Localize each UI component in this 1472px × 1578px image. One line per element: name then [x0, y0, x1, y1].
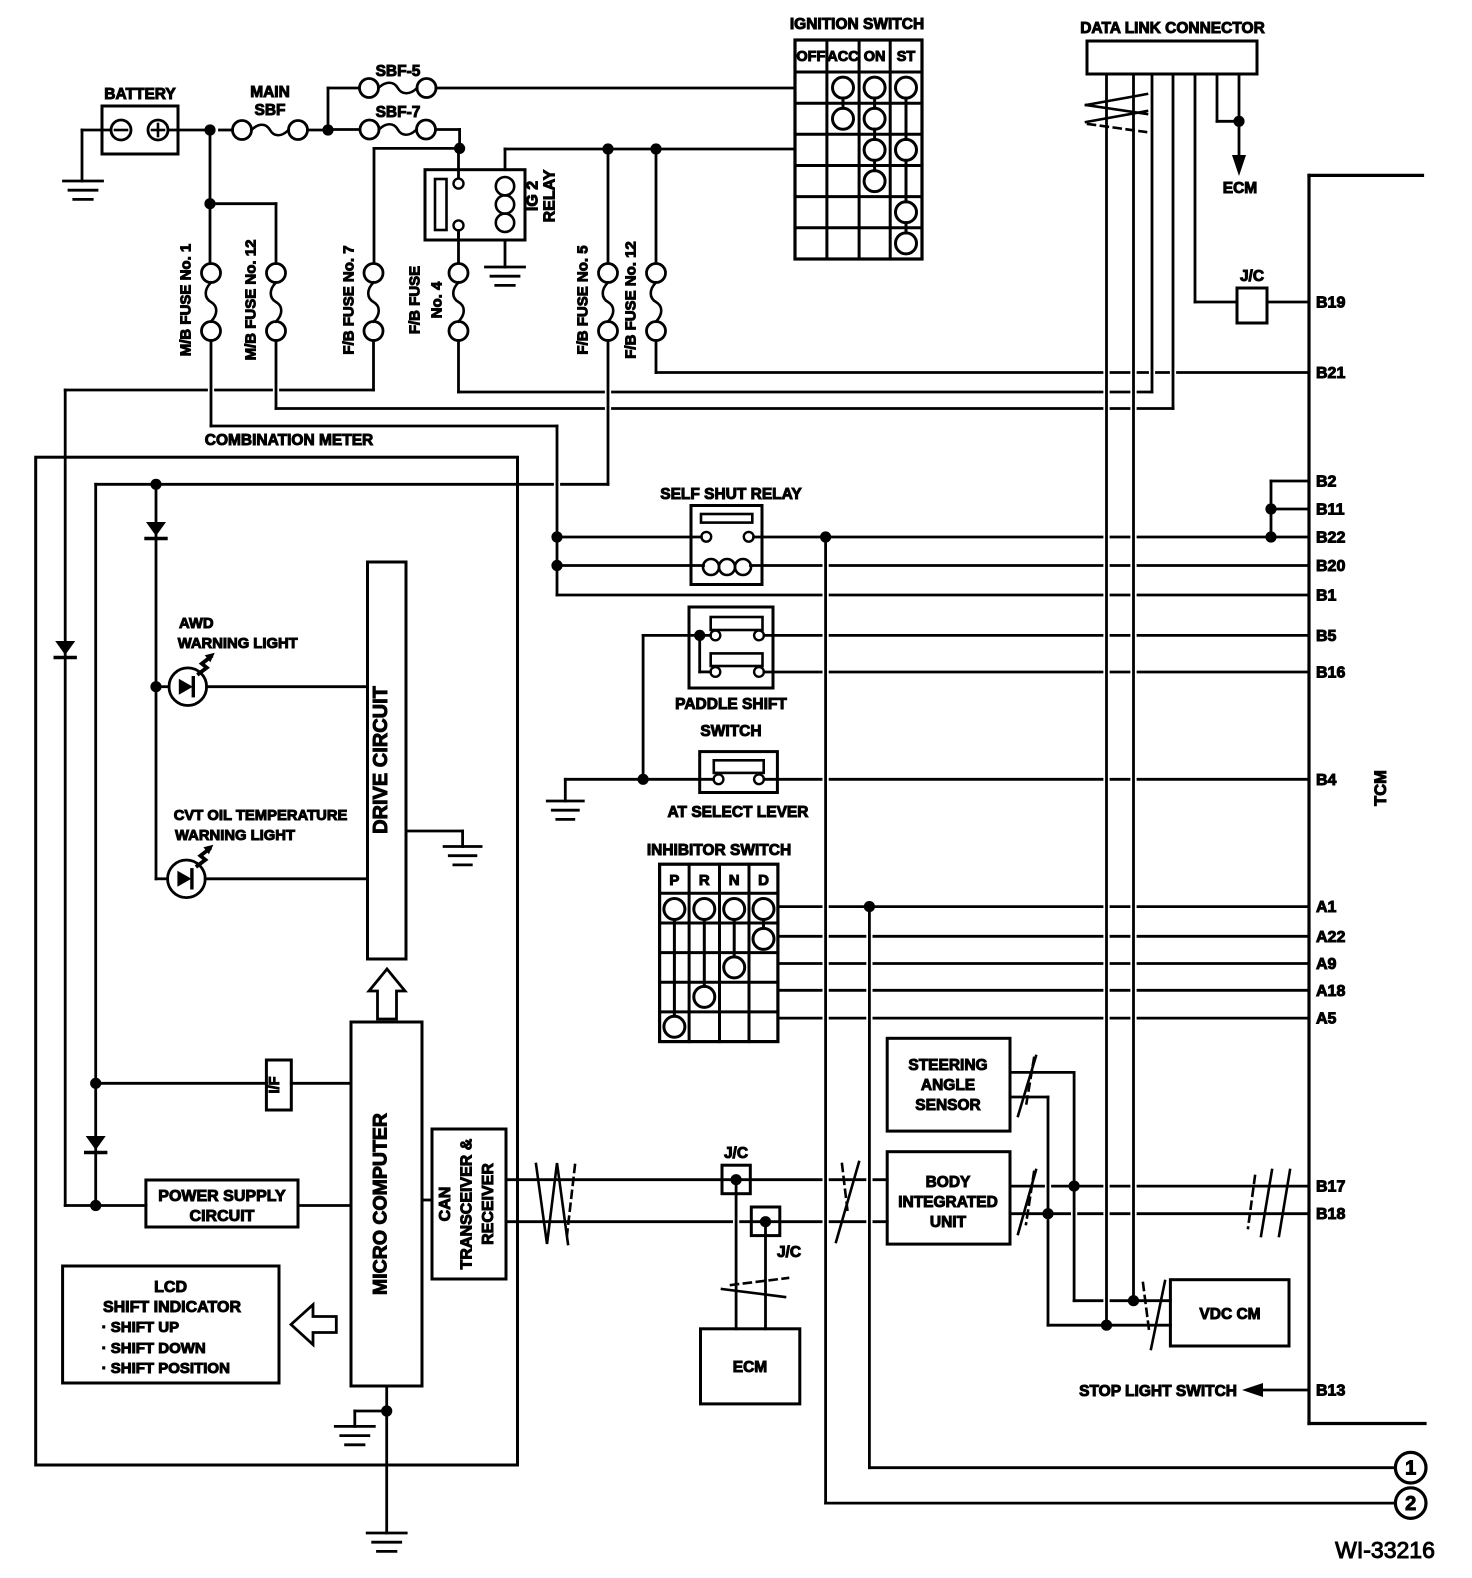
svg-text:B19: B19	[1316, 295, 1345, 312]
ECM block	[701, 1329, 800, 1404]
svg-text:A18: A18	[1316, 983, 1345, 1000]
wire B20 (self shut coil)	[557, 564, 1309, 567]
fuse MAIN SBF	[233, 84, 308, 140]
svg-text:B4: B4	[1316, 772, 1337, 789]
TCM pin labels	[1316, 295, 1345, 1400]
wire DLC pin5 to J/C	[1194, 74, 1197, 302]
diode D3 (power rail)	[86, 1136, 106, 1153]
fuse F/B FUSE No.7	[341, 245, 384, 354]
node M/B fuse branch	[204, 198, 215, 209]
wire SBF-5 to ignition switch	[436, 87, 795, 90]
svg-text:SBF-7: SBF-7	[376, 104, 421, 121]
svg-text:A9: A9	[1316, 956, 1337, 973]
junction connector J/C (CAN high)	[722, 1145, 750, 1194]
wire to meter ground	[355, 1411, 387, 1426]
wire M/B fuse No.1 output	[211, 341, 557, 596]
wire LED1	[156, 685, 368, 688]
ground (IG2 relay)	[486, 267, 525, 285]
twisted-wires mark (ECM branch)	[722, 1278, 788, 1297]
ground (meter internal)	[335, 1426, 374, 1444]
twisted-wires mark (B17/B18)	[1248, 1170, 1290, 1236]
node J/C2	[760, 1216, 771, 1227]
power supply circuit block	[146, 1180, 298, 1227]
node B22 tap	[551, 531, 562, 542]
arrow micro computer to drive circuit	[369, 969, 405, 1019]
node B17 join	[1069, 1181, 1080, 1192]
svg-text:A22: A22	[1316, 929, 1345, 946]
svg-text:CAN: CAN	[437, 1187, 454, 1222]
node J/C1	[731, 1174, 742, 1185]
svg-text:B16: B16	[1316, 665, 1345, 682]
twisted-wires mark (CAN left)	[536, 1163, 575, 1244]
wire IG2 contact to F/B fuse No.4	[457, 230, 460, 263]
svg-text:STOP LIGHT SWITCH: STOP LIGHT SWITCH	[1079, 1383, 1237, 1400]
svg-text:I/F: I/F	[267, 1076, 283, 1093]
twisted-wires mark (SAS)	[1018, 1056, 1036, 1116]
node F/B fuse No.5 feed	[602, 143, 613, 154]
svg-text:SWITCH: SWITCH	[700, 723, 761, 740]
terminal 1	[1395, 1452, 1426, 1483]
wire A5	[778, 1017, 1309, 1020]
svg-text:INHIBITOR SWITCH: INHIBITOR SWITCH	[647, 842, 791, 859]
svg-text:2: 2	[1405, 1493, 1416, 1515]
node LED1 tap	[150, 681, 161, 692]
svg-text:P: P	[669, 872, 679, 889]
wire F/B fuse No.5 to meter rail	[96, 341, 608, 1206]
svg-text:IG 2: IG 2	[525, 181, 542, 211]
data link connector	[1080, 20, 1265, 74]
LED CVT oil temperature warning light	[168, 808, 348, 898]
svg-text:BATTERY: BATTERY	[104, 86, 176, 103]
svg-text:SHIFT INDICATOR: SHIFT INDICATOR	[103, 1299, 242, 1316]
svg-text:POWER SUPPLY: POWER SUPPLY	[158, 1188, 286, 1205]
svg-text:TRANSCEIVER &: TRANSCEIVER &	[459, 1138, 476, 1269]
svg-text:STEERING: STEERING	[908, 1057, 987, 1074]
svg-text:M/B FUSE No. 12: M/B FUSE No. 12	[243, 240, 260, 361]
wire power supply	[65, 1204, 351, 1207]
ground (main bottom)	[367, 1533, 406, 1551]
svg-text:WARNING LIGHT: WARNING LIGHT	[175, 828, 295, 844]
wire J/C2 to ECM	[764, 1222, 767, 1329]
svg-text:B18: B18	[1316, 1206, 1345, 1223]
battery	[102, 86, 178, 154]
fuse F/B FUSE No.5	[575, 245, 618, 354]
wire I/F	[96, 1082, 351, 1085]
terminal 2	[1395, 1488, 1426, 1519]
junction connector J/C (CAN low)	[751, 1207, 801, 1261]
svg-text:WI-33216: WI-33216	[1335, 1537, 1435, 1563]
wire CAN high	[506, 1178, 887, 1181]
switch AT SELECT LEVER	[668, 752, 809, 821]
wire battery to M/B fuses	[209, 130, 212, 264]
svg-text:MICRO COMPUTER: MICRO COMPUTER	[370, 1113, 392, 1295]
wire B17	[1010, 1185, 1309, 1188]
svg-text:DRIVE CIRCUIT: DRIVE CIRCUIT	[370, 686, 392, 834]
svg-text:M/B FUSE No. 1: M/B FUSE No. 1	[178, 244, 195, 357]
wire DLC pin6	[1217, 74, 1239, 121]
svg-text:LCD: LCD	[154, 1279, 187, 1296]
node B22 tie	[1265, 531, 1276, 542]
svg-text:AT SELECT LEVER: AT SELECT LEVER	[668, 804, 809, 821]
svg-text:SENSOR: SENSOR	[915, 1097, 980, 1114]
wire B11	[1271, 508, 1309, 511]
I/F block	[266, 1060, 291, 1110]
node I/F tap	[90, 1078, 101, 1089]
TCM module outline	[1309, 175, 1425, 1423]
twisted-wires mark (BIU left)	[836, 1162, 859, 1242]
wire B2/B11 tie	[1270, 481, 1273, 537]
fuse F/B FUSE No.12	[623, 241, 666, 359]
svg-text:1: 1	[1405, 1458, 1416, 1480]
ground (select lever)	[547, 801, 583, 819]
wire A1	[778, 905, 1309, 908]
LED AWD warning light	[169, 616, 298, 706]
twisted-wires mark (BIU right)	[1018, 1170, 1036, 1234]
svg-text:CIRCUIT: CIRCUIT	[190, 1208, 255, 1225]
wire M/B fuse No.12 to DLC pin4	[276, 74, 1173, 409]
svg-text:BODY: BODY	[926, 1174, 971, 1191]
wire battery negative to ground	[82, 130, 111, 181]
node F/B fuse No.12 feed	[650, 143, 661, 154]
CAN transceiver block	[432, 1129, 506, 1279]
wire main sbf	[220, 129, 329, 132]
wire DLC pin1	[1105, 74, 1108, 1325]
svg-text:F/B FUSE No. 12: F/B FUSE No. 12	[623, 241, 640, 359]
svg-text:ANGLE: ANGLE	[921, 1077, 975, 1094]
wire to SBF-7	[328, 128, 360, 131]
svg-text:OFF: OFF	[796, 49, 825, 65]
wire B22 to terminal 2	[826, 537, 1396, 1503]
node paddle/select junction	[638, 774, 649, 785]
node SBF-7 junction	[454, 143, 465, 154]
node B11 tie	[1265, 503, 1276, 514]
wire A1 to terminal 1	[869, 907, 1395, 1468]
svg-text:B5: B5	[1316, 628, 1337, 645]
VDC CM block	[1170, 1280, 1289, 1346]
svg-text:INTEGRATED: INTEGRATED	[898, 1194, 998, 1211]
wire B5	[764, 634, 1309, 637]
svg-text:F/B FUSE No. 5: F/B FUSE No. 5	[575, 245, 592, 354]
svg-text:MAIN: MAIN	[250, 84, 290, 101]
svg-text:R: R	[699, 872, 710, 889]
body integrated unit block	[887, 1152, 1010, 1244]
wire battery positive	[168, 129, 210, 132]
svg-text:VDC CM: VDC CM	[1199, 1306, 1260, 1323]
node battery output	[204, 124, 215, 135]
relay SELF SHUT	[660, 486, 802, 585]
steering angle sensor block	[887, 1038, 1010, 1131]
wire F/B fuse No.12 to B21	[656, 341, 1309, 373]
wire drive circuit ground	[406, 831, 463, 847]
relay IG2	[425, 169, 559, 240]
wire SAS out 1	[1010, 1072, 1074, 1300]
wire IG2 coil to ground	[504, 240, 507, 267]
node power rail join	[90, 1200, 101, 1211]
svg-text:RELAY: RELAY	[542, 169, 559, 222]
svg-text:· SHIFT UP: · SHIFT UP	[102, 1319, 180, 1336]
svg-text:B17: B17	[1316, 1179, 1345, 1196]
wire micro computer ground	[385, 1386, 388, 1533]
wire SAS out 2	[1010, 1097, 1048, 1325]
node VDC pin2 join	[1128, 1295, 1139, 1306]
svg-text:N: N	[729, 872, 740, 889]
ground (drive circuit)	[444, 847, 481, 865]
svg-text:COMBINATION METER: COMBINATION METER	[205, 432, 373, 449]
svg-text:· SHIFT POSITION: · SHIFT POSITION	[102, 1360, 230, 1377]
wire F/B fuse No.7 to combination meter	[65, 341, 373, 1206]
fuse M/B FUSE No.1	[178, 244, 221, 357]
wire to IG2 relay contact	[457, 148, 460, 178]
label WI-33216	[1335, 1537, 1435, 1563]
wire B22	[557, 536, 1309, 539]
inhibitor switch	[647, 842, 791, 1042]
svg-text:B13: B13	[1316, 1383, 1345, 1400]
drive circuit block	[368, 562, 407, 959]
wire B4	[764, 778, 1309, 781]
combination meter outline	[36, 432, 518, 1465]
ground (battery)	[64, 181, 103, 199]
node B20 tap	[551, 560, 562, 571]
wire AT select lever to ground	[565, 779, 713, 801]
wire SBF-7 output	[436, 130, 460, 149]
wire B13 stop light switch	[1079, 1383, 1309, 1400]
svg-text:ACC: ACC	[827, 49, 859, 65]
twisted-wires mark (VDC)	[1143, 1281, 1165, 1349]
wire branch to M/B fuse No.12	[210, 204, 276, 264]
svg-text:WARNING LIGHT: WARNING LIGHT	[178, 636, 298, 652]
wire J/C1 to ECM	[735, 1180, 738, 1329]
svg-text:ON: ON	[864, 49, 886, 65]
svg-text:SBF: SBF	[255, 102, 286, 119]
switch PADDLE SHIFT	[675, 607, 787, 740]
node B22 drop	[820, 531, 831, 542]
svg-text:UNIT: UNIT	[930, 1214, 967, 1231]
wire CAN low	[506, 1220, 887, 1223]
svg-text:SELF SHUT RELAY: SELF SHUT RELAY	[660, 486, 802, 503]
wire paddle feed	[643, 635, 710, 779]
svg-text:DATA LINK CONNECTOR: DATA LINK CONNECTOR	[1080, 20, 1265, 37]
svg-text:B21: B21	[1316, 365, 1345, 382]
svg-text:PADDLE SHIFT: PADDLE SHIFT	[675, 696, 787, 713]
fuse SBF-7	[360, 104, 436, 139]
wire IG2 relay to ignition switch	[505, 149, 795, 170]
node DLC ECM junction	[1233, 116, 1244, 127]
label ECM (from DLC)	[1223, 180, 1257, 197]
wire B18	[1010, 1212, 1309, 1215]
ignition switch	[790, 16, 924, 259]
node meter LED rail tap	[150, 479, 161, 490]
node B18 join	[1042, 1208, 1053, 1219]
wire A18	[778, 989, 1309, 992]
svg-text:F/B FUSE: F/B FUSE	[407, 266, 424, 334]
fuse F/B FUSE No.4	[407, 264, 469, 341]
wire F/B fuse No.4 to DLC pin3	[459, 74, 1153, 392]
fuse M/B FUSE No.12	[243, 240, 286, 361]
svg-text:RECEIVER: RECEIVER	[480, 1163, 497, 1245]
svg-text:D: D	[758, 872, 769, 889]
fuse SBF-5	[360, 63, 437, 98]
wire paddle internal	[700, 635, 711, 672]
svg-text:· SHIFT DOWN: · SHIFT DOWN	[102, 1340, 206, 1357]
LCD shift indicator block	[63, 1266, 279, 1383]
svg-text:J/C: J/C	[1240, 268, 1264, 285]
wire VDC CAN low	[1048, 1324, 1170, 1327]
wire arrow to ECM	[1232, 121, 1246, 176]
svg-text:CVT OIL TEMPERATURE: CVT OIL TEMPERATURE	[174, 808, 348, 824]
node micro ground	[381, 1405, 392, 1416]
svg-text:No. 4: No. 4	[429, 281, 446, 318]
wire B19	[1195, 301, 1309, 304]
node A1 drop	[864, 901, 875, 912]
wire B16	[764, 671, 1309, 674]
svg-text:B22: B22	[1316, 530, 1345, 547]
wire micro to CAN	[422, 1199, 432, 1202]
svg-text:A5: A5	[1316, 1011, 1337, 1028]
junction connector J/C (B19)	[1237, 268, 1267, 323]
wire A22	[778, 935, 1309, 938]
svg-text:B2: B2	[1316, 474, 1337, 491]
micro computer block	[351, 1022, 422, 1386]
svg-text:ST: ST	[897, 49, 916, 65]
twisted-wires mark (DLC pins)	[1086, 94, 1147, 132]
wire to F/B fuse No.7	[374, 148, 460, 263]
svg-text:AWD: AWD	[179, 616, 214, 632]
svg-text:F/B FUSE No. 7: F/B FUSE No. 7	[341, 245, 358, 354]
wire LED rail	[155, 484, 158, 879]
wire to SBF-5	[328, 88, 360, 130]
svg-text:J/C: J/C	[777, 1244, 801, 1261]
wire DLC pin7 to ECM	[1238, 74, 1241, 121]
svg-text:SBF-5: SBF-5	[376, 63, 421, 80]
wire feed F/B fuse No.12	[655, 149, 658, 264]
svg-text:TCM: TCM	[1372, 770, 1390, 806]
wire A9	[778, 962, 1309, 965]
svg-text:B11: B11	[1316, 502, 1345, 519]
arrow micro computer to LCD	[291, 1305, 336, 1345]
node main sbf output	[322, 124, 333, 135]
wire LED2	[156, 877, 368, 880]
svg-text:A1: A1	[1316, 899, 1337, 916]
wire B1	[557, 594, 1309, 597]
diode D2 (LED rail)	[146, 522, 166, 539]
wire VDC CAN high	[1074, 1299, 1170, 1302]
wire DLC pin2	[1132, 74, 1135, 1301]
svg-text:IGNITION SWITCH: IGNITION SWITCH	[790, 16, 924, 33]
node VDC pin1 join	[1101, 1320, 1112, 1331]
svg-text:J/C: J/C	[724, 1145, 748, 1162]
svg-text:B20: B20	[1316, 558, 1345, 575]
node paddle input	[694, 630, 705, 641]
wire feed F/B fuse No.5	[607, 149, 610, 264]
svg-text:ECM: ECM	[1223, 180, 1257, 197]
svg-text:B1: B1	[1316, 588, 1337, 605]
diode D1 (meter left rail)	[55, 641, 75, 658]
svg-text:ECM: ECM	[733, 1359, 767, 1376]
wire B2	[1271, 480, 1309, 483]
